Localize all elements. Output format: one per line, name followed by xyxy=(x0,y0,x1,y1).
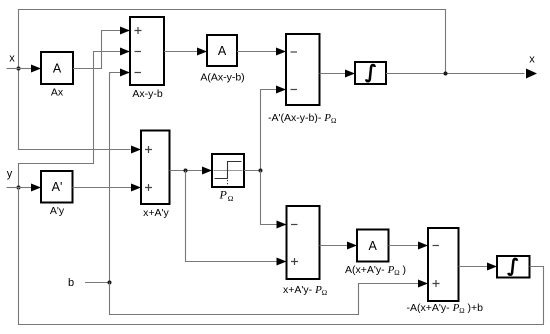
output arrow x xyxy=(526,69,537,79)
node: relay output junction xyxy=(259,169,263,173)
wire: integrator1 output to x output xyxy=(386,73,525,75)
integrator U2 xyxy=(497,256,530,278)
node: x junction on left vertical xyxy=(17,67,21,71)
svg-text:y: y xyxy=(7,168,13,180)
wire: sum3 output down to sum4 input2 xyxy=(186,171,278,262)
wire: gain A2 output to sum2 input1 xyxy=(237,51,277,53)
wire: sum3 output to relay xyxy=(170,170,203,172)
svg-text:A': A' xyxy=(52,180,63,194)
svg-text:P: P xyxy=(219,188,228,202)
integrator U1 xyxy=(355,62,386,84)
wire: sum4 output to gain A4 xyxy=(320,245,348,247)
wire: integrator2 output feedback (right, bottom line, left vertical up to y junction) xyxy=(19,188,544,325)
svg-text:A: A xyxy=(53,62,62,76)
svg-text:A(Ax-y-b): A(Ax-y-b) xyxy=(200,72,244,84)
wire: sum1 output to gain A2 xyxy=(164,51,198,53)
sum S3 "x+A'y" xyxy=(141,131,170,205)
relay block P xyxy=(212,154,244,187)
svg-text:Ω: Ω xyxy=(228,194,234,203)
wire: Ax output to sum1 input1 xyxy=(73,31,121,69)
wire: y up to sum1 input2 xyxy=(19,52,121,188)
gain A4 "A(x+A'y-P)" xyxy=(357,230,389,262)
gain A1 "Ax" xyxy=(41,52,73,84)
wire: relay output up to sum2 input2 xyxy=(261,90,277,171)
arrowhead: x into sum3 input1 xyxy=(131,146,141,154)
gain A2 "A(Ax-y-b)" xyxy=(207,35,237,66)
sum S1 "Ax-y-b" xyxy=(130,17,164,85)
svg-text:b: b xyxy=(68,277,74,289)
svg-text:x: x xyxy=(529,54,535,66)
wire: relay output to junction xyxy=(244,170,261,172)
node: y junction on left vertical xyxy=(17,186,21,190)
wire: b up to sum1 input3 xyxy=(110,73,121,283)
wire: x into gain A1 xyxy=(19,68,32,70)
svg-text:Ax: Ax xyxy=(51,87,64,99)
svg-text:A: A xyxy=(369,239,378,253)
gain A3 "A'y" xyxy=(41,171,73,203)
wire: b down and right to sum5 input2 xyxy=(110,283,419,315)
svg-text:Ax-y-b: Ax-y-b xyxy=(132,88,162,100)
wire: sum2 output to integrator1 xyxy=(320,73,346,75)
wire: relay junction down to sum4 input1 xyxy=(261,171,278,225)
wire: y stub to left edge xyxy=(7,187,19,189)
sum S2 "-A'(Ax-y-b)-P" xyxy=(286,34,320,105)
sum S4 "x+A'y-P" xyxy=(287,206,320,279)
wire: gain A3 output to sum3 input2 xyxy=(73,187,132,189)
svg-text:A: A xyxy=(218,44,227,58)
svg-text:x: x xyxy=(9,53,15,65)
sum S5 "-A(x+A'y-P)+b" xyxy=(428,228,459,301)
svg-text:-A'(Ax-y-b)- PΩ: -A'(Ax-y-b)- PΩ xyxy=(268,112,336,125)
node: junction on x output line xyxy=(444,72,448,76)
wire: x feedback (top line, left vertical, into sum x+A'y input1) xyxy=(19,10,446,150)
wire: sum5 output to integrator2 xyxy=(459,266,489,268)
wire: y into gain A3 xyxy=(19,187,32,189)
svg-text:x+A'y- PΩ: x+A'y- PΩ xyxy=(283,284,327,297)
svg-text:x+A'y: x+A'y xyxy=(143,207,169,219)
svg-text:-A(x+A'y- PΩ )+b: -A(x+A'y- PΩ )+b xyxy=(407,302,484,315)
svg-text:A'y: A'y xyxy=(50,205,65,217)
wire: gain A4 output to sum5 input1 xyxy=(389,245,419,247)
node: junction after sum3 output xyxy=(184,169,188,173)
wire: x stub to left edge xyxy=(7,68,19,70)
node: b junction xyxy=(108,281,112,285)
wire: b stub xyxy=(85,282,110,284)
